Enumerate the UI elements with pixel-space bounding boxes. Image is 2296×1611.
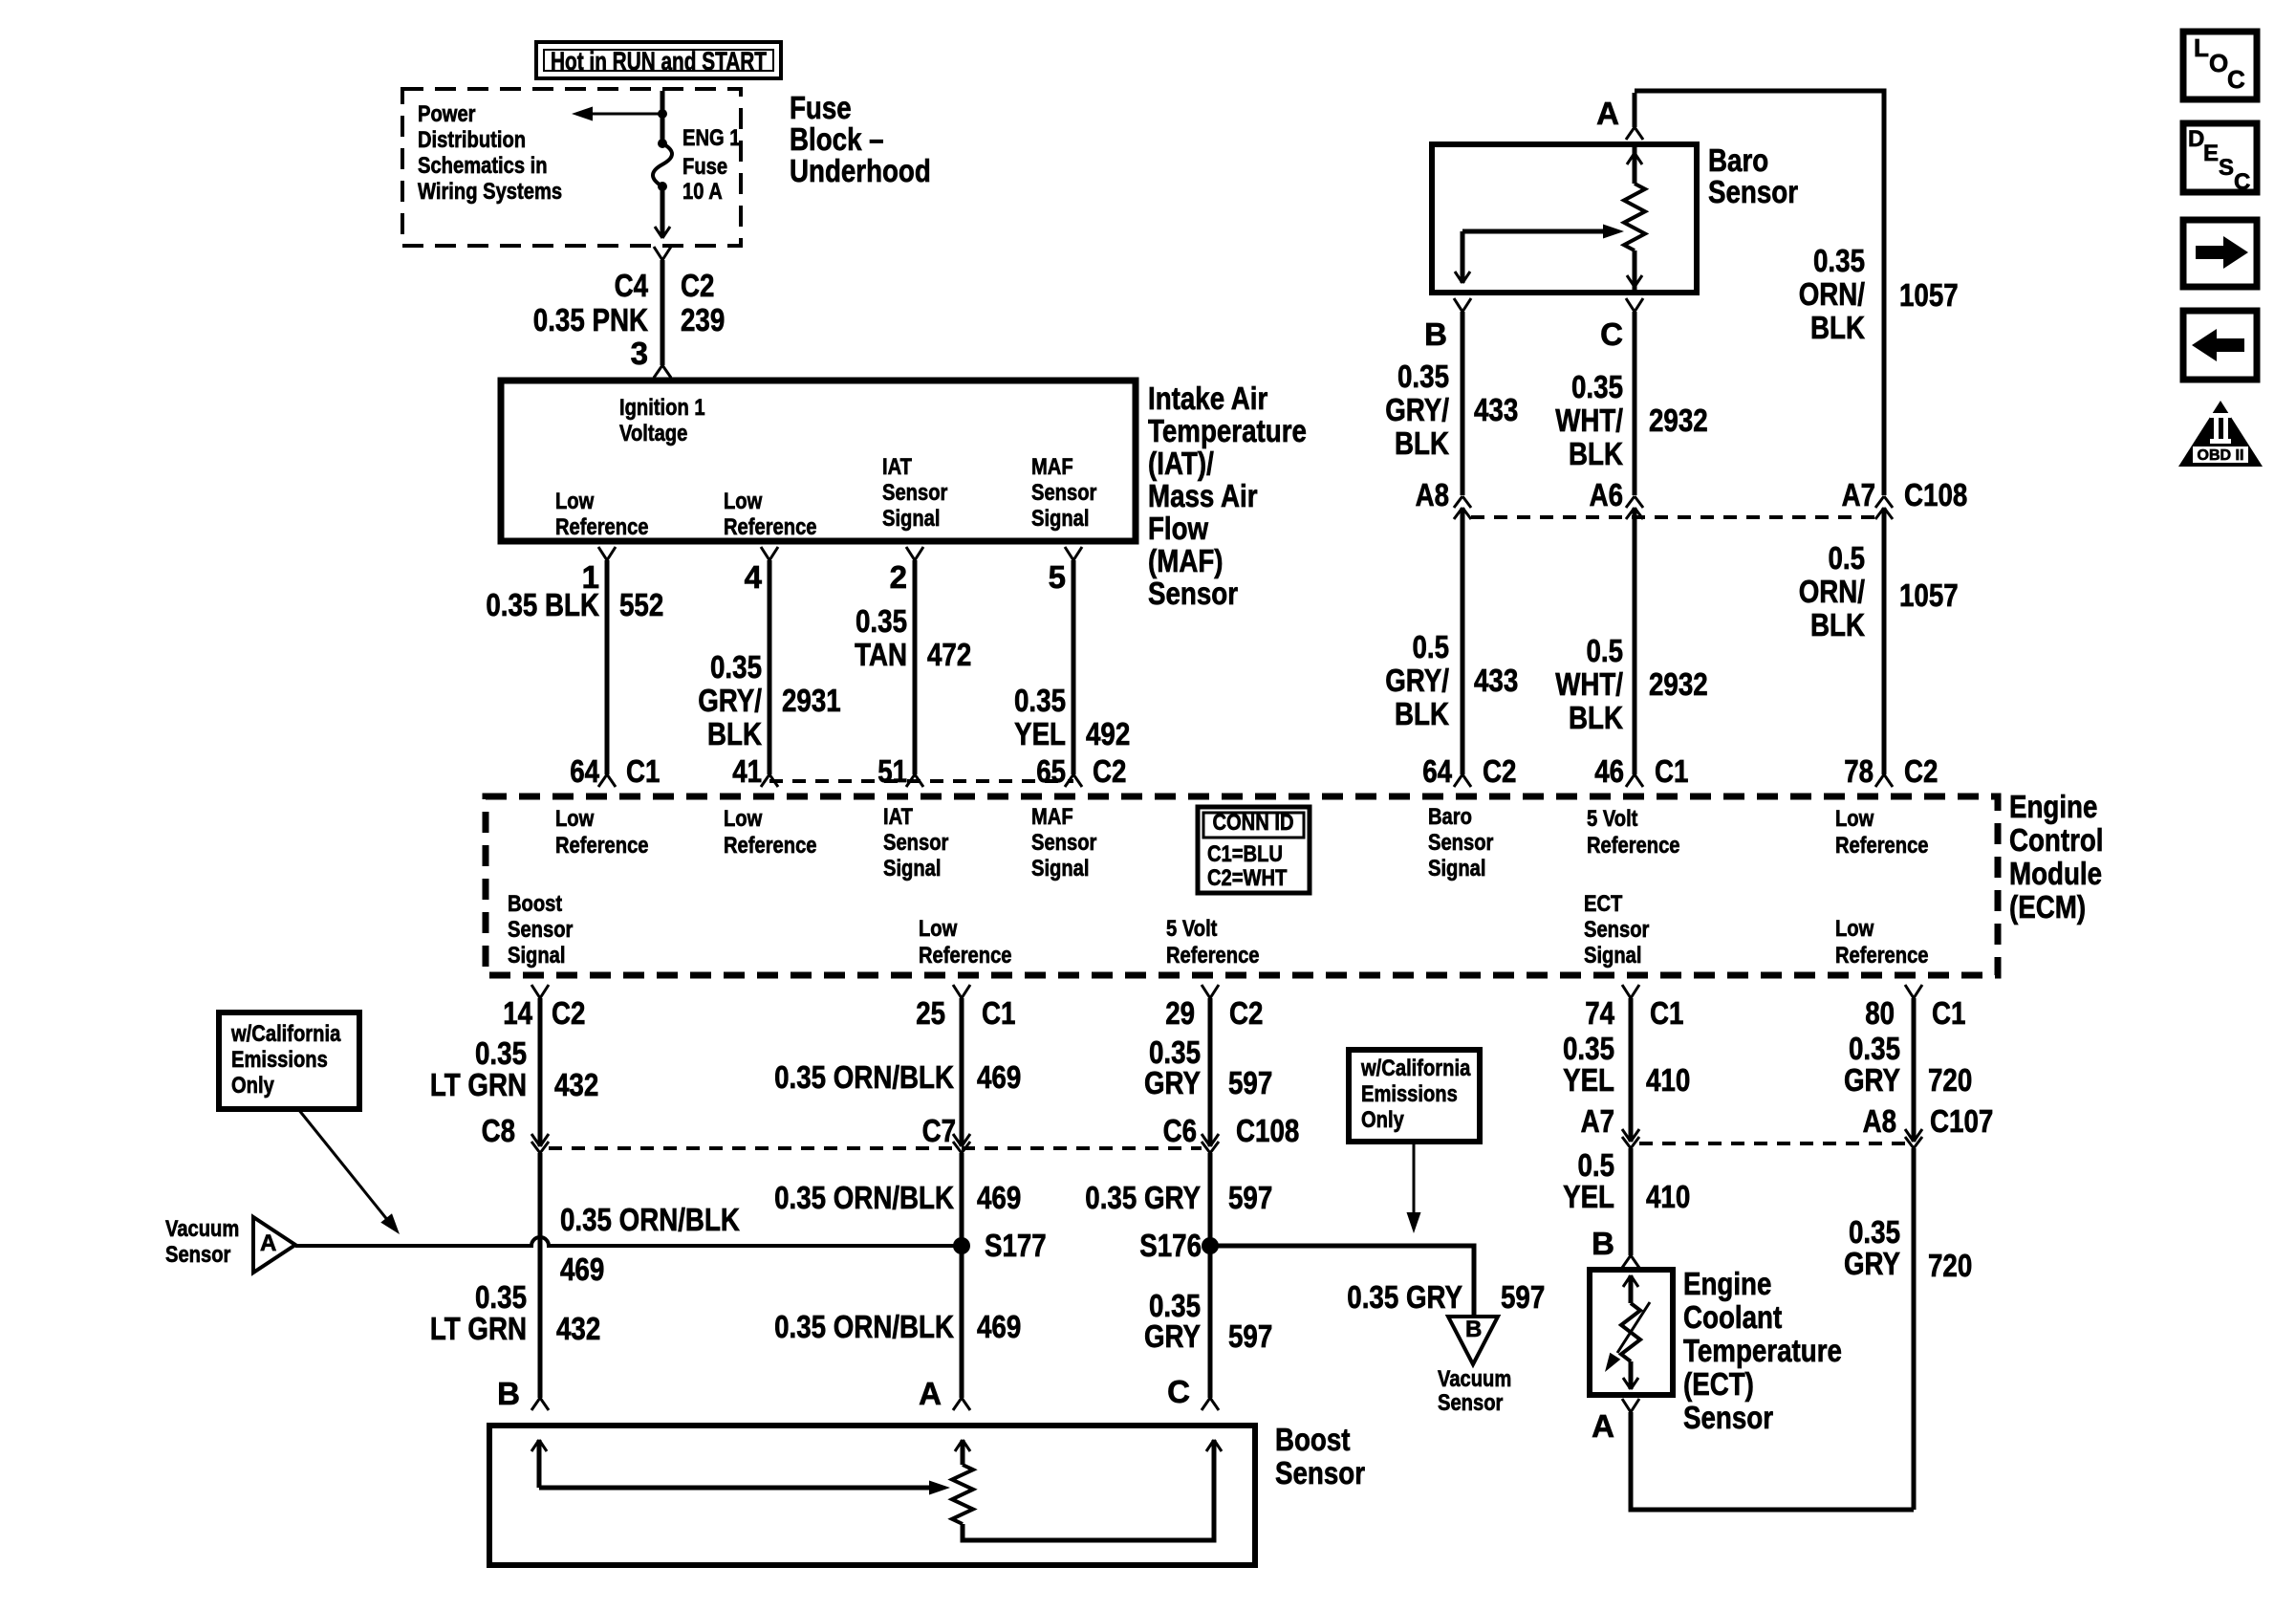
svg-text:Engine: Engine (1683, 1266, 1771, 1301)
svg-text:Signal: Signal (882, 506, 941, 532)
svg-text:0.35: 0.35 (475, 1279, 527, 1315)
svg-text:BLK: BLK (1395, 696, 1449, 731)
svg-text:51: 51 (877, 753, 907, 789)
svg-text:Low: Low (1835, 806, 1874, 832)
svg-text:Low: Low (555, 806, 595, 832)
svg-text:0.5: 0.5 (1587, 633, 1624, 668)
svg-text:D: D (2188, 126, 2204, 152)
svg-text:Sensor: Sensor (1438, 1390, 1503, 1416)
svg-text:C1: C1 (982, 995, 1015, 1031)
svg-text:C2: C2 (1483, 753, 1516, 789)
svg-text:Reference: Reference (1835, 943, 1929, 969)
svg-text:597: 597 (1228, 1065, 1272, 1100)
svg-text:C: C (1167, 1374, 1190, 1409)
svg-text:C: C (2227, 65, 2245, 94)
svg-text:B: B (1424, 316, 1447, 352)
svg-text:64: 64 (570, 753, 599, 789)
svg-text:0.5: 0.5 (1829, 540, 1866, 576)
svg-text:Wiring Systems: Wiring Systems (418, 179, 562, 205)
svg-text:C2: C2 (1093, 753, 1126, 789)
svg-text:Ignition 1: Ignition 1 (619, 395, 705, 421)
svg-text:GRY/: GRY/ (698, 683, 762, 718)
svg-text:432: 432 (556, 1311, 600, 1346)
svg-text:Mass Air: Mass Air (1148, 478, 1258, 513)
svg-text:GRY: GRY (1144, 1065, 1201, 1100)
svg-text:Power: Power (418, 101, 476, 127)
svg-text:25: 25 (916, 995, 945, 1031)
svg-text:0.35: 0.35 (1813, 243, 1865, 278)
svg-text:64: 64 (1422, 753, 1452, 789)
svg-text:Low: Low (724, 489, 763, 514)
svg-text:C2: C2 (552, 995, 585, 1031)
svg-text:ENG 1: ENG 1 (682, 125, 741, 151)
svg-text:ECT: ECT (1584, 891, 1623, 917)
svg-text:41: 41 (732, 753, 762, 789)
svg-text:S177: S177 (985, 1228, 1047, 1263)
svg-text:492: 492 (1086, 716, 1130, 751)
svg-text:Temperature: Temperature (1683, 1333, 1842, 1368)
svg-text:OBD II: OBD II (2198, 447, 2244, 464)
svg-text:469: 469 (560, 1252, 604, 1287)
svg-text:1057: 1057 (1899, 577, 1959, 613)
svg-text:A7: A7 (1581, 1103, 1614, 1139)
svg-text:Signal: Signal (883, 856, 942, 882)
svg-text:Reference: Reference (1835, 833, 1929, 859)
svg-text:Emissions: Emissions (231, 1047, 328, 1073)
svg-text:74: 74 (1585, 995, 1614, 1031)
svg-text:0.35: 0.35 (1397, 359, 1449, 394)
svg-text:Vacuum: Vacuum (1438, 1366, 1511, 1392)
svg-text:A7: A7 (1842, 477, 1875, 512)
svg-text:Underhood: Underhood (790, 153, 931, 188)
svg-text:LT GRN: LT GRN (430, 1067, 527, 1102)
svg-text:Sensor: Sensor (508, 917, 573, 943)
svg-text:80: 80 (1865, 995, 1895, 1031)
svg-text:Voltage: Voltage (619, 421, 687, 446)
svg-text:ORN/: ORN/ (1799, 574, 1865, 609)
svg-text:0.35 ORN/BLK: 0.35 ORN/BLK (774, 1180, 954, 1215)
svg-text:GRY/: GRY/ (1385, 392, 1449, 427)
svg-text:Temperature: Temperature (1148, 413, 1307, 448)
svg-text:MAF: MAF (1031, 454, 1073, 480)
svg-text:469: 469 (977, 1059, 1021, 1095)
svg-text:Baro: Baro (1428, 804, 1472, 830)
svg-text:0.35: 0.35 (1849, 1214, 1900, 1250)
svg-text:Coolant: Coolant (1683, 1299, 1782, 1335)
svg-text:239: 239 (681, 302, 725, 337)
svg-text:3: 3 (631, 336, 648, 371)
svg-text:2: 2 (890, 559, 907, 595)
svg-text:Sensor: Sensor (1148, 576, 1238, 611)
svg-text:GRY/: GRY/ (1385, 663, 1449, 698)
svg-text:46: 46 (1594, 753, 1624, 789)
svg-text:Sensor: Sensor (1275, 1455, 1365, 1491)
svg-text:GRY: GRY (1844, 1062, 1900, 1098)
svg-text:Sensor: Sensor (883, 830, 948, 856)
svg-text:Reference: Reference (1587, 833, 1680, 859)
svg-text:410: 410 (1646, 1179, 1690, 1214)
svg-text:LT GRN: LT GRN (430, 1311, 527, 1346)
svg-text:14: 14 (503, 995, 532, 1031)
svg-text:A6: A6 (1590, 477, 1623, 512)
svg-text:Sensor: Sensor (1708, 174, 1798, 209)
svg-text:C107: C107 (1930, 1103, 1993, 1139)
svg-text:A: A (1592, 1408, 1614, 1444)
svg-text:C: C (1600, 316, 1623, 352)
svg-text:C1: C1 (1932, 995, 1965, 1031)
svg-text:w/California: w/California (1360, 1056, 1471, 1081)
svg-text:78: 78 (1844, 753, 1874, 789)
svg-text:A8: A8 (1416, 477, 1449, 512)
svg-text:0.35: 0.35 (710, 649, 762, 685)
svg-text:B: B (497, 1376, 520, 1411)
svg-text:720: 720 (1928, 1248, 1972, 1283)
svg-text:Low: Low (1835, 916, 1874, 942)
svg-text:469: 469 (977, 1309, 1021, 1344)
svg-text:Reference: Reference (555, 514, 649, 540)
svg-text:Low: Low (555, 489, 595, 514)
svg-text:C: C (2234, 169, 2250, 195)
svg-text:IAT: IAT (882, 454, 912, 480)
svg-text:(IAT)/: (IAT)/ (1148, 446, 1214, 481)
svg-text:GRY: GRY (1144, 1318, 1201, 1354)
svg-text:BLK: BLK (1569, 700, 1623, 735)
svg-text:Boost: Boost (508, 891, 562, 917)
svg-text:Baro: Baro (1708, 142, 1768, 178)
svg-text:Schematics in: Schematics in (418, 153, 548, 179)
svg-text:552: 552 (619, 587, 663, 622)
svg-text:0.35 PNK: 0.35 PNK (533, 302, 648, 337)
svg-text:0.35 BLK: 0.35 BLK (486, 587, 599, 622)
svg-text:0.35 GRY: 0.35 GRY (1347, 1279, 1462, 1315)
svg-text:S176: S176 (1139, 1228, 1202, 1263)
svg-text:0.35: 0.35 (856, 603, 907, 639)
svg-text:ORN/: ORN/ (1799, 276, 1865, 312)
svg-text:Only: Only (1361, 1107, 1404, 1133)
svg-text:Block –: Block – (790, 121, 884, 157)
svg-text:0.35: 0.35 (475, 1035, 527, 1071)
svg-text:Module: Module (2009, 856, 2102, 891)
svg-text:Signal: Signal (1584, 943, 1642, 969)
svg-text:720: 720 (1928, 1062, 1972, 1098)
svg-text:0.35: 0.35 (1571, 369, 1623, 404)
svg-text:0.35: 0.35 (1849, 1031, 1900, 1066)
svg-text:Low: Low (724, 806, 763, 832)
svg-text:2932: 2932 (1649, 403, 1708, 438)
svg-text:0.35: 0.35 (1014, 683, 1066, 718)
svg-text:B: B (1592, 1226, 1614, 1261)
svg-text:YEL: YEL (1563, 1062, 1614, 1098)
svg-text:E: E (2203, 141, 2219, 166)
svg-text:Reference: Reference (724, 833, 817, 859)
svg-text:(ECM): (ECM) (2009, 889, 2086, 925)
svg-text:Sensor: Sensor (882, 480, 947, 506)
svg-text:2932: 2932 (1649, 666, 1708, 702)
svg-text:GRY: GRY (1844, 1246, 1900, 1281)
svg-text:0.35 ORN/BLK: 0.35 ORN/BLK (774, 1059, 954, 1095)
svg-text:Intake Air: Intake Air (1148, 381, 1267, 416)
svg-text:A: A (919, 1376, 942, 1411)
svg-text:C1=BLU: C1=BLU (1207, 841, 1283, 867)
svg-text:Fuse: Fuse (790, 90, 852, 125)
svg-text:S: S (2219, 155, 2234, 181)
svg-text:2931: 2931 (782, 683, 841, 718)
svg-text:C108: C108 (1904, 477, 1967, 512)
svg-text:C2: C2 (1229, 995, 1263, 1031)
svg-text:0.35: 0.35 (1563, 1031, 1614, 1066)
svg-text:432: 432 (554, 1067, 598, 1102)
svg-text:Signal: Signal (1428, 856, 1486, 882)
svg-text:Reference: Reference (555, 833, 649, 859)
svg-text:Distribution: Distribution (418, 127, 526, 153)
svg-text:Sensor: Sensor (1584, 917, 1649, 943)
svg-text:Emissions: Emissions (1361, 1081, 1458, 1107)
svg-text:WHT/: WHT/ (1555, 403, 1623, 438)
svg-text:IAT: IAT (883, 804, 913, 830)
svg-text:C1: C1 (1650, 995, 1683, 1031)
svg-text:C108: C108 (1236, 1113, 1299, 1148)
svg-text:29: 29 (1165, 995, 1195, 1031)
svg-text:C6: C6 (1163, 1113, 1197, 1148)
svg-text:MAF: MAF (1031, 804, 1073, 830)
svg-text:0.5: 0.5 (1413, 629, 1450, 664)
svg-text:YEL: YEL (1563, 1179, 1614, 1214)
svg-text:Signal: Signal (1031, 856, 1090, 882)
svg-text:C8: C8 (482, 1113, 515, 1148)
svg-text:C7: C7 (922, 1113, 956, 1148)
svg-text:A8: A8 (1863, 1103, 1896, 1139)
svg-text:65: 65 (1036, 753, 1066, 789)
svg-text:Sensor: Sensor (1683, 1400, 1773, 1435)
svg-text:C1: C1 (1655, 753, 1688, 789)
svg-text:5: 5 (1049, 559, 1066, 595)
svg-text:Reference: Reference (919, 943, 1012, 969)
svg-text:433: 433 (1474, 392, 1518, 427)
svg-text:BLK: BLK (1810, 310, 1865, 345)
svg-text:Boost: Boost (1275, 1422, 1351, 1457)
svg-text:YEL: YEL (1014, 716, 1066, 751)
svg-text:C4: C4 (615, 268, 649, 303)
svg-text:597: 597 (1501, 1279, 1545, 1315)
svg-text:Flow: Flow (1148, 511, 1208, 546)
svg-text:0.35 ORN/BLK: 0.35 ORN/BLK (560, 1202, 740, 1237)
svg-text:BLK: BLK (1569, 436, 1623, 471)
svg-text:A: A (260, 1230, 276, 1256)
svg-text:A: A (1596, 96, 1619, 131)
svg-text:Low: Low (919, 916, 958, 942)
svg-text:C1: C1 (626, 753, 660, 789)
svg-text:472: 472 (927, 637, 971, 672)
svg-text:CONN ID: CONN ID (1212, 810, 1293, 836)
svg-text:10 A: 10 A (682, 179, 723, 205)
svg-text:TAN: TAN (855, 637, 907, 672)
svg-text:Sensor: Sensor (1031, 830, 1096, 856)
svg-text:(ECT): (ECT) (1683, 1366, 1754, 1402)
svg-text:469: 469 (977, 1180, 1021, 1215)
svg-text:WHT/: WHT/ (1555, 666, 1623, 702)
svg-text:5 Volt: 5 Volt (1166, 916, 1217, 942)
svg-text:597: 597 (1228, 1318, 1272, 1354)
svg-text:4: 4 (745, 559, 763, 595)
svg-text:BLK: BLK (1810, 607, 1865, 642)
svg-text:0.35 GRY: 0.35 GRY (1085, 1180, 1201, 1215)
svg-text:L: L (2194, 33, 2209, 62)
svg-text:Reference: Reference (724, 514, 817, 540)
svg-text:C2: C2 (681, 268, 714, 303)
svg-text:C2: C2 (1904, 753, 1938, 789)
svg-text:597: 597 (1228, 1180, 1272, 1215)
svg-text:Sensor: Sensor (165, 1242, 230, 1268)
svg-text:C2=WHT: C2=WHT (1207, 865, 1288, 891)
svg-text:Sensor: Sensor (1031, 480, 1096, 506)
svg-text:Sensor: Sensor (1428, 830, 1493, 856)
svg-text:433: 433 (1474, 663, 1518, 698)
svg-text:Hot in RUN and START: Hot in RUN and START (551, 47, 767, 76)
svg-text:Engine: Engine (2009, 789, 2097, 824)
svg-text:410: 410 (1646, 1062, 1690, 1098)
svg-text:1057: 1057 (1899, 277, 1959, 313)
svg-text:Vacuum: Vacuum (165, 1216, 239, 1242)
svg-text:w/California: w/California (230, 1021, 341, 1047)
svg-text:5 Volt: 5 Volt (1587, 806, 1637, 832)
svg-text:BLK: BLK (707, 716, 762, 751)
svg-text:BLK: BLK (1395, 425, 1449, 461)
svg-text:(MAF): (MAF) (1148, 543, 1224, 578)
svg-text:Fuse: Fuse (682, 154, 727, 180)
svg-text:O: O (2209, 49, 2228, 77)
svg-text:Only: Only (231, 1073, 274, 1099)
svg-text:Reference: Reference (1166, 943, 1260, 969)
svg-text:B: B (1465, 1317, 1482, 1342)
svg-text:Control: Control (2009, 822, 2104, 858)
svg-text:Signal: Signal (1031, 506, 1090, 532)
svg-text:0.35 ORN/BLK: 0.35 ORN/BLK (774, 1309, 954, 1344)
svg-text:0.5: 0.5 (1578, 1147, 1615, 1183)
svg-text:Signal: Signal (508, 943, 566, 969)
